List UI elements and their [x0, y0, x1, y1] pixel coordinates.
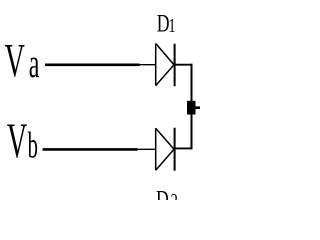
junction output terminal block	[187, 101, 196, 115]
node Vb label	[7, 113, 27, 168]
wire D2 cathode to right corner	[175, 147, 193, 149]
wire Va horizontal	[45, 64, 140, 67]
wire output stub	[195, 106, 200, 109]
wire Vb horizontal	[43, 148, 138, 151]
svg-text:D: D	[156, 184, 169, 200]
svg-text:1: 1	[169, 13, 176, 36]
wire D1 cathode to right corner	[175, 64, 193, 66]
svg-text:2: 2	[171, 189, 178, 200]
diode D1	[156, 44, 175, 87]
wire right vertical bus	[191, 64, 193, 149]
label D1	[157, 8, 170, 37]
label D2	[156, 184, 169, 213]
node Va label	[5, 35, 25, 87]
svg-text:V: V	[5, 35, 25, 87]
wire D1 anode lead	[140, 64, 156, 66]
svg-text:V: V	[7, 113, 27, 168]
svg-text:a: a	[29, 42, 40, 87]
diode D2	[156, 128, 175, 171]
wire D2 anode lead	[138, 148, 156, 150]
svg-text:b: b	[28, 127, 38, 166]
